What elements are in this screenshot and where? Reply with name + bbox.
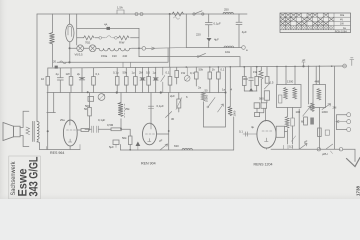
frame left border (36, 14, 38, 121)
voltage selector plug pair (99, 36, 102, 39)
svg-text:1000: 1000 (233, 110, 237, 116)
col 149 resistor (148, 67, 150, 76)
svg-text:448: 448 (315, 80, 320, 84)
col 82 capacitor (79, 68, 85, 93)
speaker (3, 123, 14, 141)
junction node top line (169, 13, 171, 15)
col 60 capacitor (57, 68, 63, 93)
svg-text:REN 904: REN 904 (141, 162, 156, 166)
svg-text:0,1: 0,1 (166, 71, 170, 75)
svg-text:343 G/GL: 343 G/GL (27, 157, 41, 197)
tap line (57, 61, 168, 63)
barretter tube column (68, 14, 70, 24)
wire right inner vertical (298, 109, 300, 149)
coupling cap on V2 anode lead (148, 106, 153, 108)
svg-text:1µ: 1µ (132, 71, 136, 75)
svg-text:30: 30 (171, 117, 175, 121)
resistor right mid (304, 117, 308, 125)
crosshatch row of table (281, 26, 335, 30)
svg-text:1300: 1300 (287, 80, 294, 84)
svg-text:RGN 1064: RGN 1064 (335, 31, 347, 34)
svg-text:50k: 50k (123, 71, 128, 75)
output tube column (69, 93, 71, 126)
col 117 resistor (116, 68, 118, 77)
svg-text:20: 20 (53, 60, 57, 64)
svg-text:220: 220 (196, 33, 201, 37)
switch arrow on line2 (160, 144, 168, 150)
svg-text:RENS 1204: RENS 1204 (254, 163, 273, 167)
svg-text:2M: 2M (139, 71, 144, 75)
barretter tube (oval) (66, 24, 74, 42)
wire barretter to tap line (69, 42, 71, 63)
V1 bottom line (40, 149, 81, 151)
heater row with dial lamps (69, 47, 76, 49)
dial lamp 1 (77, 45, 84, 52)
coil bottom link line (204, 67, 226, 127)
svg-text:2M: 2M (333, 106, 338, 110)
AF choke coil column (120, 93, 122, 103)
svg-text:0,5: 0,5 (146, 71, 150, 75)
svg-text:4V: 4V (340, 19, 343, 22)
bus end terminal (343, 64, 347, 68)
svg-text:1,5A: 1,5A (117, 6, 123, 10)
svg-text:240: 240 (123, 54, 128, 58)
wave coil on line2 (182, 148, 192, 150)
col 163 switch (161, 67, 165, 92)
resistor col 177 (176, 67, 178, 70)
col 156 capacitor blob (153, 67, 158, 92)
aerial coil (201, 92, 205, 101)
vertical inner border power (76, 14, 78, 45)
svg-text:0,2: 0,2 (289, 145, 293, 149)
svg-text:100: 100 (296, 110, 301, 114)
link terminal + arrow (132, 47, 143, 49)
node mains tap junction (68, 61, 70, 63)
X cell marks (280, 13, 334, 26)
svg-text:10000: 10000 (205, 94, 209, 102)
svg-text:1a: 1a (222, 88, 226, 92)
wire mid vertical power (185, 14, 187, 48)
svg-text:4µF: 4µF (242, 30, 247, 34)
right column with switch (168, 93, 170, 150)
svg-text:50k: 50k (199, 68, 204, 72)
fuse box on inner line (107, 27, 111, 30)
tube V2 REN904 (150, 93, 152, 125)
pot circle on bus2 (98, 94, 105, 101)
svg-text:1W: 1W (66, 72, 71, 76)
col 48 resistor (47, 68, 49, 77)
svg-text:190: 190 (112, 54, 117, 58)
node bus2 junction a (87, 91, 89, 93)
svg-text:µF: µF (159, 139, 163, 143)
band switch right (334, 66, 336, 149)
tube V1 RES964 (63, 120, 77, 146)
svg-text:0,1µF: 0,1µF (214, 22, 221, 26)
choke on power bottom line (224, 46, 234, 48)
plug circles on top border (135, 13, 138, 16)
svg-text:150a: 150a (101, 54, 108, 58)
dial lamp 2 (89, 45, 96, 52)
fuse on bus (55, 66, 58, 69)
wire choke to coupling row (120, 119, 122, 129)
small rect near switch (325, 130, 329, 135)
V3 column top resistors (260, 67, 262, 71)
bottom line 2 (121, 149, 234, 151)
col 257 resistor (256, 67, 258, 77)
tube labels (50, 151, 272, 167)
wave switch blade 2 (218, 104, 224, 112)
svg-text:R/W: R/W (119, 41, 125, 45)
output transformer winding (37, 121, 39, 142)
resistor row power (77, 37, 84, 39)
cap blob right mid (310, 118, 314, 125)
resistor R/W (119, 36, 129, 40)
svg-text:70Ω: 70Ω (85, 41, 90, 45)
maker label block (9, 156, 41, 199)
voice-coil loop (20, 111, 29, 146)
output transformer core (33, 121, 35, 141)
wire coil tap drops (123, 62, 131, 67)
col 135 resistor (134, 68, 136, 77)
svg-text:0,5M: 0,5M (107, 123, 114, 127)
capacitor smoothing right (236, 14, 242, 48)
coil under box1 (285, 117, 289, 128)
jack junction on bus (302, 65, 304, 67)
col 93 resistor (93, 68, 95, 77)
svg-text:500: 500 (259, 97, 264, 101)
coupling row to V2 (85, 128, 91, 130)
switch on heater link (197, 56, 199, 58)
svg-text:0,1µF: 0,1µF (98, 118, 105, 122)
switch arrows mid right (303, 106, 311, 116)
node bus junctions along HT bus (186, 65, 333, 68)
resistor 50k column (129, 129, 131, 136)
col 170 resistor (169, 67, 171, 76)
svg-text:RES 964: RES 964 (50, 151, 64, 155)
col 142 capacitor blob (140, 68, 145, 93)
choke column left (52, 14, 54, 33)
svg-text:0,1: 0,1 (96, 72, 100, 76)
node bus junction e (256, 66, 258, 68)
svg-text:µF: µF (304, 140, 308, 144)
node bus2 junction b (116, 91, 118, 93)
svg-text:40a: 40a (340, 14, 345, 17)
node bus2 junction c (160, 91, 162, 93)
wave switch blade 1 (207, 106, 209, 108)
node heater junction (69, 47, 71, 49)
col 244 resistor (243, 67, 245, 77)
AC wavy on tap line (60, 61, 67, 64)
svg-text:2µ: 2µ (77, 72, 81, 76)
node selector junction (138, 47, 140, 49)
svg-text:1300: 1300 (322, 110, 329, 114)
bottom line right (271, 148, 340, 150)
stub left of V3 (243, 132, 257, 136)
tapped dropper coil (96, 48, 131, 51)
wire osc coil riser (233, 117, 235, 150)
svg-text:0,1µ: 0,1µ (113, 71, 119, 75)
electrolytic cap blob (207, 38, 212, 42)
terminal circles right column (gramophone) (347, 113, 351, 117)
wire choke to bus (52, 44, 54, 67)
rotated coil value labels (205, 94, 237, 116)
earth arrow big (347, 158, 360, 167)
grid box V3 (276, 126, 284, 137)
wire heater down link (167, 48, 169, 62)
svg-text:4A: 4A (104, 23, 108, 27)
svg-text:4µ: 4µ (251, 125, 255, 129)
electro triangle near V2 (136, 142, 141, 147)
svg-text:10: 10 (41, 77, 45, 81)
svg-text:V6/3,5: V6/3,5 (75, 53, 84, 57)
svg-text:1738: 1738 (356, 185, 360, 196)
svg-text:2a: 2a (198, 86, 202, 90)
svg-text:1µ: 1µ (153, 71, 157, 75)
resistor col 196 (195, 67, 197, 72)
heater link line (139, 57, 240, 67)
wire dropper from top line to HT bus (169, 14, 171, 67)
svg-text:µF: µF (302, 58, 306, 62)
pickup coil right (311, 103, 315, 112)
grid resistor network V1 (89, 93, 91, 108)
resistor dropper 70 ohm (84, 36, 94, 40)
wire electro to bottom (208, 42, 210, 48)
node bus junction d (243, 66, 245, 68)
resistor col 218 (217, 67, 219, 72)
hum resistor zigzag (26, 127, 30, 135)
svg-text:2µF: 2µF (170, 94, 175, 98)
resistor mains (zigzag on top border) (172, 12, 184, 16)
choke winding (field coil) (50, 33, 55, 44)
svg-text:1W: 1W (253, 70, 258, 74)
oscillator coil lower (228, 107, 232, 116)
IF box 2 (313, 85, 326, 108)
power bottom line (186, 47, 241, 49)
frame top border (37, 13, 247, 15)
resistor col 210 (209, 67, 211, 72)
V2 grid stub right (157, 133, 169, 135)
small antenna top right (350, 58, 354, 66)
svg-text:0,1: 0,1 (190, 71, 194, 75)
svg-text:10H: 10H (225, 50, 230, 54)
wire selector riser (138, 28, 140, 56)
svg-text:300: 300 (243, 77, 248, 81)
svg-text:4µ: 4µ (56, 72, 60, 76)
svg-text:50k: 50k (122, 136, 127, 140)
svg-text:50: 50 (205, 89, 209, 93)
fuse jump on top border (117, 10, 124, 14)
choke coil on top border (223, 12, 233, 14)
svg-text:0,1: 0,1 (239, 130, 243, 134)
svg-text:µPH: µPH (322, 152, 328, 156)
potentiometer col 187 (184, 76, 190, 82)
svg-text:1W: 1W (181, 71, 186, 75)
svg-text:0,5: 0,5 (270, 81, 274, 85)
col 71 resistor (70, 68, 72, 77)
col 126 resistor (125, 68, 127, 77)
capacitor C anode (plates) (205, 14, 212, 37)
trimmer near V2 (177, 99, 181, 108)
svg-text:0,1: 0,1 (220, 68, 224, 72)
wire transformer secondary down (37, 121, 40, 150)
svg-text:25a: 25a (60, 118, 65, 122)
IF box 1 (277, 85, 302, 108)
tube V3 RENS1204 (257, 121, 276, 149)
terminal circle heater out (242, 46, 246, 50)
box 500 under bus2 (88, 97, 94, 102)
svg-text:500: 500 (85, 104, 90, 108)
svg-text:60: 60 (301, 120, 305, 124)
left long column to output tube area (47, 93, 49, 150)
svg-text:630: 630 (174, 144, 179, 148)
switch on top border (193, 13, 195, 15)
col 267 resistor + switch (266, 67, 268, 77)
svg-text:250: 250 (224, 8, 229, 12)
col 251 capacitor + electro (249, 67, 254, 88)
svg-text:5µF: 5µF (109, 145, 114, 149)
svg-text:4µF: 4µF (214, 38, 219, 42)
svg-text:1W: 1W (340, 23, 344, 26)
AC wavy label (174, 17, 180, 20)
svg-text:25k: 25k (125, 107, 130, 111)
svg-text:0,1µF: 0,1µF (157, 104, 164, 108)
horizontal inner line power (77, 27, 139, 29)
